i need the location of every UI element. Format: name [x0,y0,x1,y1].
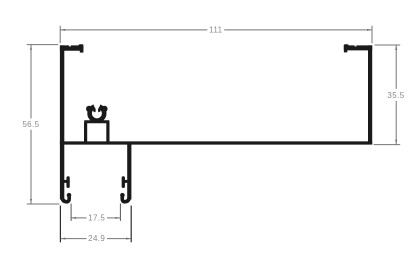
dim 24.9 line [61,238,87,240]
screw boss C-ring [86,100,108,121]
profile left wall [60,45,64,199]
svg-text:56.5: 56.5 [22,120,39,129]
profile right wall [368,45,372,144]
dim 56.5 arrows [30,45,32,50]
dim 17.5 left extension line [70,204,72,221]
svg-text:111: 111 [209,26,223,35]
profile bottom web [60,141,372,144]
svg-text:35.5: 35.5 [387,91,404,100]
dim 56.5 bottom extension line [27,203,60,205]
dim 17.5 right extension line [119,204,121,221]
dim 24.9 right extension line [130,206,132,243]
dim 17.5 arrows [71,217,76,219]
dim 17.5 line [71,217,86,219]
dim 111 right extension line [371,26,373,43]
dim 35.5 top extension line [375,44,401,46]
dim 56.5 top extension line [27,44,58,46]
dim 35.5 line [395,45,397,89]
profile top-left lip [60,44,84,52]
profile bottom right leg [127,143,131,200]
svg-text:17.5: 17.5 [88,214,105,223]
dim 35.5 bottom extension line [374,144,401,146]
right leg bottom hook [120,193,129,202]
right leg T-nub [123,178,127,187]
profile top-right lip [344,44,372,52]
dim 56.5 line [30,45,32,119]
svg-text:24.9: 24.9 [88,234,105,243]
dim 35.5 arrows [395,45,397,50]
left leg T-nub [64,178,68,187]
dim 111 arrows [60,29,65,31]
dim 24.9 left extension line [59,206,61,243]
screw boss pedestal [84,122,109,144]
dim 111 left extension line [59,26,61,43]
dim 111 line [60,29,207,31]
left leg bottom hook [62,193,71,202]
dim 24.9 arrows [61,238,66,240]
